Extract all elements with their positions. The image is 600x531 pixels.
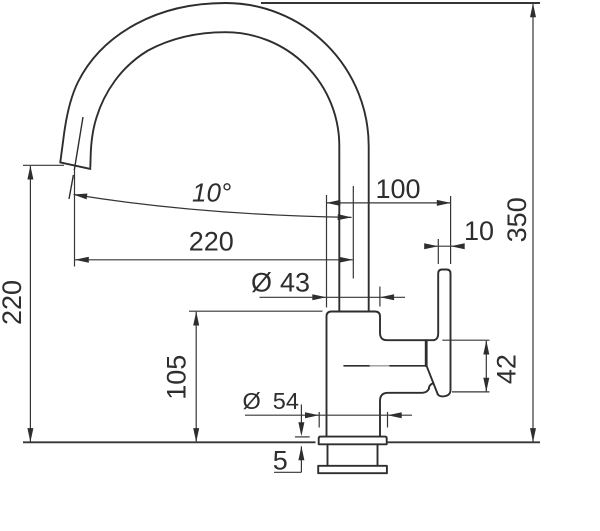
svg-text:Ø 43: Ø 43: [251, 268, 310, 298]
svg-text:10: 10: [464, 216, 494, 246]
svg-text:5: 5: [273, 445, 288, 475]
svg-text:42: 42: [492, 354, 522, 384]
svg-text:220: 220: [189, 227, 234, 257]
svg-text:105: 105: [162, 355, 192, 400]
svg-text:350: 350: [502, 197, 532, 242]
svg-text:10°: 10°: [192, 178, 231, 208]
svg-text:100: 100: [376, 174, 421, 204]
svg-text:220: 220: [0, 280, 27, 325]
svg-text:Ø 54: Ø 54: [243, 388, 299, 414]
